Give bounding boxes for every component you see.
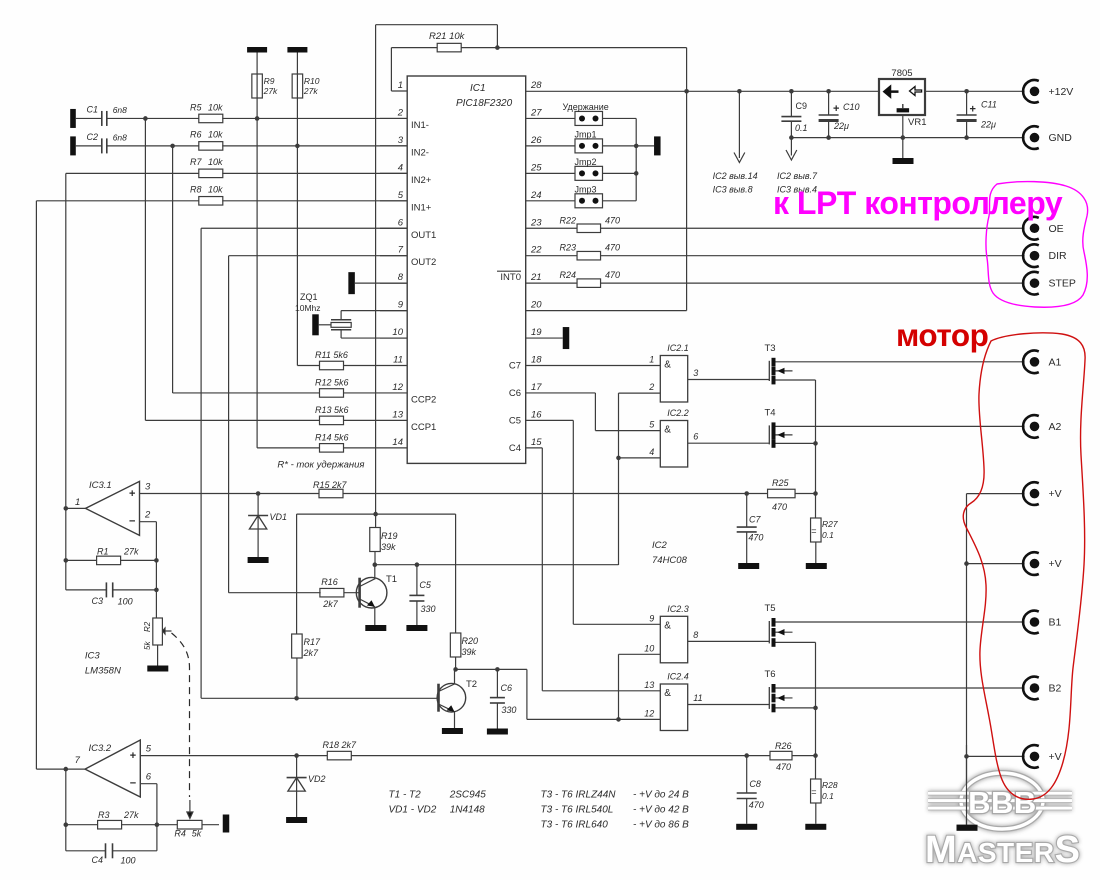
svg-text:C4: C4 (92, 855, 104, 865)
svg-text:−: − (129, 516, 135, 528)
svg-text:2k7: 2k7 (303, 648, 320, 658)
svg-text:R7: R7 (190, 157, 202, 167)
svg-text:12: 12 (644, 708, 654, 718)
svg-text:R18 2k7: R18 2k7 (323, 740, 358, 750)
svg-text:R28: R28 (822, 780, 838, 790)
svg-text:5k: 5k (143, 641, 152, 650)
svg-text:IC2.2: IC2.2 (667, 408, 689, 418)
svg-text:6n8: 6n8 (113, 132, 127, 142)
svg-text:R20: R20 (462, 636, 479, 646)
svg-text:OUT2: OUT2 (411, 257, 436, 268)
svg-text:&: & (664, 688, 671, 699)
svg-text:R11 5k6: R11 5k6 (315, 350, 348, 360)
svg-text:IC2.4: IC2.4 (667, 672, 689, 682)
svg-text:14: 14 (392, 437, 403, 448)
svg-text:12: 12 (392, 382, 403, 393)
svg-text:C4: C4 (509, 443, 521, 454)
svg-text:R16: R16 (321, 577, 338, 587)
svg-text:5k: 5k (192, 829, 202, 839)
svg-text:PIC18F2320: PIC18F2320 (456, 98, 513, 109)
svg-text:IN1-: IN1- (411, 120, 429, 131)
svg-text:330: 330 (421, 604, 436, 614)
svg-text:9: 9 (649, 613, 654, 623)
svg-text:470: 470 (748, 533, 763, 543)
svg-text:10k: 10k (208, 102, 223, 112)
svg-text:R24: R24 (560, 270, 577, 280)
svg-text:22μ: 22μ (833, 121, 849, 131)
svg-text:IN2+: IN2+ (411, 175, 432, 186)
svg-text:3: 3 (145, 482, 151, 493)
svg-text:INT0: INT0 (500, 272, 521, 283)
svg-text:OUT1: OUT1 (411, 230, 436, 241)
svg-text:IC2.3: IC2.3 (667, 604, 689, 614)
svg-text:VD1: VD1 (270, 512, 288, 522)
svg-text:Удержание: Удержание (563, 102, 609, 112)
svg-text:R9: R9 (264, 76, 275, 86)
svg-text:T3: T3 (765, 343, 776, 354)
svg-text:3: 3 (398, 135, 404, 146)
svg-text:−: − (130, 778, 136, 790)
svg-text:T3 - T6 IRL540L: T3 - T6 IRL540L (541, 805, 614, 816)
svg-text:R12 5k6: R12 5k6 (315, 377, 349, 387)
svg-text:к LPT контроллеру: к LPT контроллеру (773, 185, 1063, 221)
svg-text:5: 5 (398, 190, 404, 201)
svg-text:B2: B2 (1049, 683, 1062, 695)
svg-text:R19: R19 (381, 531, 398, 541)
svg-text:470: 470 (605, 270, 620, 280)
svg-text:GND: GND (1049, 132, 1073, 144)
svg-text:R13 5k6: R13 5k6 (315, 405, 349, 415)
svg-text:R17: R17 (304, 637, 322, 647)
svg-text:2: 2 (397, 107, 404, 118)
svg-text:T5: T5 (765, 603, 776, 614)
svg-text:STEP: STEP (1049, 278, 1076, 290)
svg-text:9: 9 (398, 300, 404, 311)
svg-text:10: 10 (392, 327, 403, 338)
svg-text:R22: R22 (560, 215, 577, 225)
svg-text:1: 1 (649, 355, 654, 365)
svg-text:+V: +V (1049, 751, 1062, 763)
svg-text:+V: +V (1049, 488, 1062, 500)
svg-text:3: 3 (693, 368, 698, 378)
svg-text:IC3.2: IC3.2 (89, 743, 112, 754)
svg-text:A2: A2 (1049, 421, 1062, 433)
svg-text:10: 10 (644, 643, 654, 653)
svg-text:R8: R8 (190, 185, 202, 195)
svg-text:R6: R6 (190, 130, 202, 140)
svg-text:470: 470 (749, 800, 764, 810)
svg-text:T3 - T6 IRL640: T3 - T6 IRL640 (541, 820, 609, 831)
svg-text:=: = (811, 526, 816, 536)
svg-text:R* - ток удержания: R* - ток удержания (277, 460, 364, 471)
svg-text:27k: 27k (123, 810, 139, 820)
svg-text:10k: 10k (208, 185, 223, 195)
svg-text:C1: C1 (87, 104, 99, 114)
svg-text:IC2: IC2 (652, 540, 668, 551)
svg-text:R23: R23 (560, 243, 577, 253)
svg-text:T1 - T2: T1 - T2 (389, 790, 422, 801)
svg-text:470: 470 (605, 215, 620, 225)
svg-text:- +V до 86 В: - +V до 86 В (633, 820, 689, 831)
svg-text:19: 19 (531, 327, 542, 338)
svg-text:T1: T1 (386, 574, 397, 585)
svg-text:C8: C8 (749, 779, 761, 789)
svg-text:+: + (970, 104, 976, 116)
svg-text:4: 4 (649, 447, 654, 457)
svg-text:C5: C5 (419, 580, 431, 590)
svg-text:1: 1 (398, 80, 403, 91)
svg-text:R2: R2 (143, 621, 152, 632)
svg-text:7805: 7805 (891, 68, 912, 79)
svg-text:R27: R27 (822, 519, 838, 529)
svg-text:IN1+: IN1+ (411, 202, 432, 213)
svg-text:VR1: VR1 (908, 117, 926, 128)
svg-text:&: & (664, 620, 671, 631)
svg-text:6: 6 (146, 772, 152, 783)
svg-text:8: 8 (398, 272, 404, 283)
svg-text:17: 17 (531, 382, 542, 393)
svg-text:R25: R25 (772, 478, 790, 488)
svg-text:2: 2 (144, 510, 151, 521)
svg-text:мотор: мотор (896, 317, 988, 353)
svg-text:+: + (833, 103, 839, 115)
svg-text:OE: OE (1049, 223, 1064, 235)
svg-text:=: = (811, 787, 816, 797)
svg-text:27k: 27k (123, 547, 139, 557)
svg-text:CCP2: CCP2 (411, 394, 436, 405)
svg-text:24: 24 (530, 190, 542, 201)
svg-text:16: 16 (531, 409, 542, 420)
svg-text:R4: R4 (174, 829, 186, 839)
svg-text:C5: C5 (509, 415, 521, 426)
svg-text:0.1: 0.1 (795, 123, 808, 133)
svg-text:20: 20 (530, 300, 542, 311)
svg-text:IC3.1: IC3.1 (89, 480, 112, 491)
svg-text:C10: C10 (843, 102, 860, 112)
svg-text:Jmp3: Jmp3 (575, 184, 597, 194)
svg-text:39k: 39k (462, 647, 477, 657)
svg-text:R26: R26 (775, 741, 792, 751)
svg-text:T2: T2 (466, 679, 477, 690)
svg-text:21: 21 (530, 272, 542, 283)
svg-text:T3 - T6 IRLZ44N: T3 - T6 IRLZ44N (541, 790, 617, 801)
svg-text:IC2 выв.7: IC2 выв.7 (777, 171, 818, 181)
svg-text:13: 13 (392, 409, 403, 420)
svg-text:ZQ1: ZQ1 (300, 292, 318, 302)
svg-text:8: 8 (693, 630, 698, 640)
svg-text:Jmp2: Jmp2 (575, 157, 597, 167)
svg-text:C9: C9 (796, 101, 808, 111)
svg-text:6: 6 (398, 217, 404, 228)
svg-text:IC1: IC1 (470, 83, 486, 94)
svg-text:470: 470 (776, 762, 791, 772)
svg-text:IC2 выв.14: IC2 выв.14 (713, 171, 758, 181)
svg-text:T4: T4 (765, 407, 776, 418)
svg-text:13: 13 (644, 680, 654, 690)
svg-text:330: 330 (501, 705, 516, 715)
svg-text:- +V до 24 В: - +V до 24 В (633, 790, 689, 801)
svg-text:CCP1: CCP1 (411, 422, 436, 433)
svg-text:6n8: 6n8 (113, 105, 127, 115)
svg-text:+12V: +12V (1049, 86, 1074, 98)
svg-text:100: 100 (118, 597, 133, 607)
svg-text:LM358N: LM358N (85, 666, 121, 677)
svg-text:R14 5k6: R14 5k6 (315, 432, 349, 442)
svg-text:26: 26 (530, 135, 542, 146)
svg-text:11: 11 (693, 693, 702, 703)
svg-text:1: 1 (75, 497, 80, 508)
svg-text:27k: 27k (303, 86, 318, 96)
svg-text:27k: 27k (263, 86, 278, 96)
svg-text:IC3 выв.8: IC3 выв.8 (713, 185, 753, 195)
svg-text:28: 28 (530, 80, 542, 91)
svg-text:&: & (664, 360, 671, 371)
svg-text:+: + (129, 488, 135, 500)
svg-text:A1: A1 (1049, 356, 1062, 368)
svg-text:11: 11 (393, 355, 403, 366)
svg-text:C2: C2 (87, 132, 99, 142)
svg-text:7: 7 (398, 245, 404, 256)
svg-text:0.1: 0.1 (822, 530, 834, 540)
svg-text:IC2.1: IC2.1 (667, 343, 689, 353)
svg-text:C7: C7 (749, 514, 761, 524)
svg-text:C11: C11 (981, 100, 997, 110)
svg-text:74HC08: 74HC08 (652, 555, 688, 566)
svg-text:C7: C7 (509, 361, 521, 372)
svg-text:IN2-: IN2- (411, 147, 429, 158)
svg-text:22μ: 22μ (980, 120, 996, 130)
svg-text:B1: B1 (1049, 617, 1062, 629)
svg-text:100: 100 (121, 856, 136, 866)
svg-text:VD1 - VD2: VD1 - VD2 (389, 805, 437, 816)
svg-text:10Mhz: 10Mhz (295, 303, 321, 313)
svg-text:C6: C6 (501, 683, 513, 693)
svg-text:2k7: 2k7 (322, 599, 339, 609)
svg-text:+: + (130, 750, 136, 762)
svg-text:7: 7 (75, 755, 81, 766)
svg-text:Jmp1: Jmp1 (575, 129, 597, 139)
svg-text:DIR: DIR (1049, 250, 1068, 262)
svg-text:5: 5 (146, 744, 152, 755)
svg-text:2SC945: 2SC945 (449, 790, 487, 801)
svg-text:&: & (664, 425, 671, 436)
svg-text:R21 10k: R21 10k (429, 31, 466, 42)
svg-text:470: 470 (605, 243, 620, 253)
svg-text:T6: T6 (765, 669, 776, 680)
svg-text:10k: 10k (208, 157, 223, 167)
svg-text:25: 25 (530, 162, 542, 173)
svg-text:IC3: IC3 (85, 651, 101, 662)
svg-text:4: 4 (398, 162, 403, 173)
svg-text:C6: C6 (509, 388, 521, 399)
svg-text:+V: +V (1049, 558, 1062, 570)
svg-text:R10: R10 (304, 76, 320, 86)
svg-text:R1: R1 (97, 547, 109, 557)
svg-text:BBB: BBB (968, 785, 1037, 820)
svg-text:18: 18 (531, 355, 542, 366)
svg-text:15: 15 (531, 437, 542, 448)
svg-text:R15 2k7: R15 2k7 (313, 480, 348, 490)
svg-text:R3: R3 (98, 810, 110, 820)
svg-text:10k: 10k (208, 130, 223, 140)
svg-text:R5: R5 (190, 102, 202, 112)
svg-text:23: 23 (530, 217, 542, 228)
svg-text:39k: 39k (381, 542, 396, 552)
svg-text:0.1: 0.1 (822, 791, 834, 801)
svg-text:470: 470 (772, 502, 787, 512)
svg-text:1N4148: 1N4148 (450, 805, 485, 816)
svg-text:C3: C3 (92, 596, 104, 606)
svg-text:22: 22 (530, 245, 542, 256)
svg-text:27: 27 (530, 107, 542, 118)
svg-text:2: 2 (648, 382, 654, 392)
svg-text:- +V до 42 В: - +V до 42 В (633, 805, 689, 816)
svg-text:VD2: VD2 (308, 774, 326, 784)
svg-text:6: 6 (693, 432, 698, 442)
